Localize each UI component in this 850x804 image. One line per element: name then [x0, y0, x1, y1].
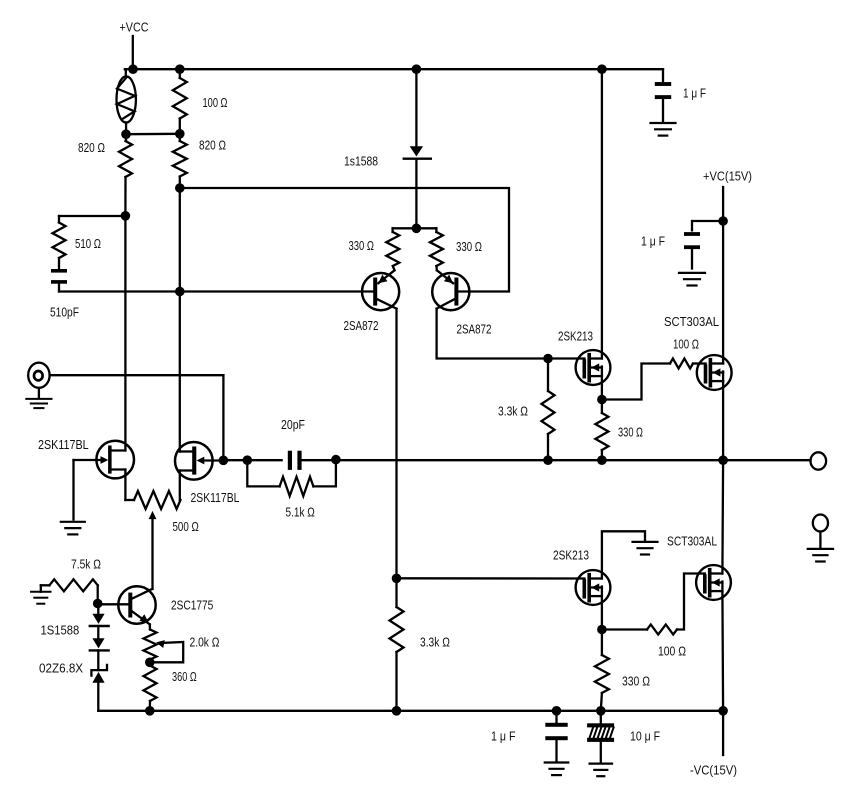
svg-text:330 Ω: 330 Ω — [622, 674, 650, 689]
svg-text:330 Ω: 330 Ω — [456, 239, 482, 254]
svg-text:510 Ω: 510 Ω — [75, 236, 101, 251]
svg-text:2SK117BL: 2SK117BL — [191, 490, 240, 505]
svg-text:5.1k Ω: 5.1k Ω — [286, 505, 316, 520]
svg-text:-VC(15V): -VC(15V) — [690, 763, 737, 778]
svg-text:+VCC: +VCC — [120, 20, 149, 35]
svg-text:100 Ω: 100 Ω — [203, 95, 228, 110]
svg-text:2SK213: 2SK213 — [558, 329, 593, 344]
svg-text:2SA872: 2SA872 — [344, 318, 379, 333]
svg-text:1 μ F: 1 μ F — [641, 234, 665, 249]
svg-text:02Z6.8X: 02Z6.8X — [39, 661, 83, 676]
svg-text:1 μ F: 1 μ F — [491, 729, 516, 744]
svg-text:7.5k Ω: 7.5k Ω — [71, 557, 101, 572]
svg-text:1S1588: 1S1588 — [41, 623, 80, 638]
svg-text:2SA872: 2SA872 — [457, 322, 492, 337]
svg-text:+VC(15V): +VC(15V) — [703, 169, 752, 184]
svg-text:1 μ F: 1 μ F — [683, 86, 706, 101]
svg-text:360 Ω: 360 Ω — [172, 669, 197, 684]
svg-text:1s1588: 1s1588 — [344, 154, 378, 169]
svg-text:3.3k Ω: 3.3k Ω — [420, 635, 450, 650]
svg-text:10 μ F: 10 μ F — [630, 729, 660, 744]
svg-text:330 Ω: 330 Ω — [349, 238, 375, 253]
svg-text:SCT303AL: SCT303AL — [664, 314, 719, 329]
svg-text:510pF: 510pF — [50, 305, 79, 320]
svg-text:330 Ω: 330 Ω — [618, 425, 643, 440]
svg-text:820 Ω: 820 Ω — [78, 140, 105, 155]
svg-text:3.3k Ω: 3.3k Ω — [498, 404, 528, 419]
svg-text:2SK117BL: 2SK117BL — [38, 437, 89, 452]
svg-text:SCT303AL: SCT303AL — [667, 534, 717, 549]
svg-text:500 Ω: 500 Ω — [173, 519, 200, 534]
svg-text:100 Ω: 100 Ω — [658, 644, 686, 659]
svg-text:2SK213: 2SK213 — [553, 548, 589, 563]
svg-text:820 Ω: 820 Ω — [199, 138, 226, 153]
svg-text:20pF: 20pF — [281, 417, 305, 432]
svg-text:2.0k Ω: 2.0k Ω — [190, 635, 220, 650]
svg-text:2SC1775: 2SC1775 — [171, 598, 213, 613]
svg-text:100 Ω: 100 Ω — [673, 337, 699, 352]
